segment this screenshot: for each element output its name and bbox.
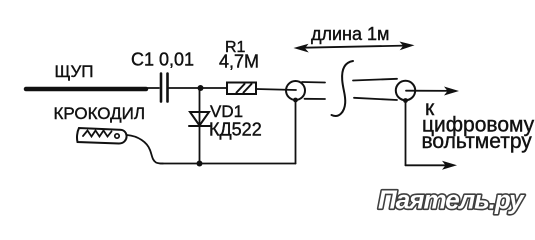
node left cable shield xyxy=(293,98,298,103)
svg-text:C1 0,01: C1 0,01 xyxy=(131,50,194,70)
cable break squiggle xyxy=(332,61,354,116)
diode VD1 wire down xyxy=(199,88,201,164)
wire capacitor to junction xyxy=(169,87,200,89)
node top junction xyxy=(198,85,204,91)
wire probe to capacitor xyxy=(145,87,159,89)
coax cable right end xyxy=(396,81,415,100)
svg-text:ЩУП: ЩУП xyxy=(55,62,94,81)
svg-text:вольтметру: вольтметру xyxy=(422,130,533,153)
svg-text:КД522: КД522 xyxy=(209,120,262,140)
svg-text:Паятель.ру: Паятель.ру xyxy=(378,185,525,215)
capacitor C1 xyxy=(161,74,168,102)
wire riser to left cable end xyxy=(295,100,297,164)
wire junction to resistor xyxy=(200,87,227,89)
wire crocodile clip to bottom rail xyxy=(127,135,163,164)
watermark Паятель.ру xyxy=(378,185,525,215)
cable shield top line right xyxy=(353,79,397,81)
node right cable shield xyxy=(403,98,408,103)
dimension arrow длина 1м xyxy=(294,42,415,53)
crocodile clip xyxy=(77,128,127,144)
coax cable left end xyxy=(286,81,305,100)
bottom rail wire xyxy=(160,163,296,165)
bottom wire to voltmeter arrow xyxy=(406,161,458,170)
svg-text:4,7М: 4,7М xyxy=(219,52,259,72)
svg-text:КРОКОДИЛ: КРОКОДИЛ xyxy=(54,104,146,123)
cable shield top line left xyxy=(302,81,325,84)
wire riser from right cable end down xyxy=(405,100,407,165)
arrow center conductor to voltmeter xyxy=(406,87,459,96)
node bottom junction xyxy=(197,161,203,167)
wire resistor to cable xyxy=(256,89,296,90)
svg-text:VD1: VD1 xyxy=(210,102,243,121)
diode VD1 xyxy=(189,112,210,126)
svg-text:длина 1м: длина 1м xyxy=(311,24,389,44)
resistor R1 xyxy=(227,83,256,95)
probe wire ЩУП (thick) xyxy=(26,87,146,92)
cable shield bottom line right xyxy=(354,98,397,100)
cable shield bottom line left xyxy=(305,98,326,100)
